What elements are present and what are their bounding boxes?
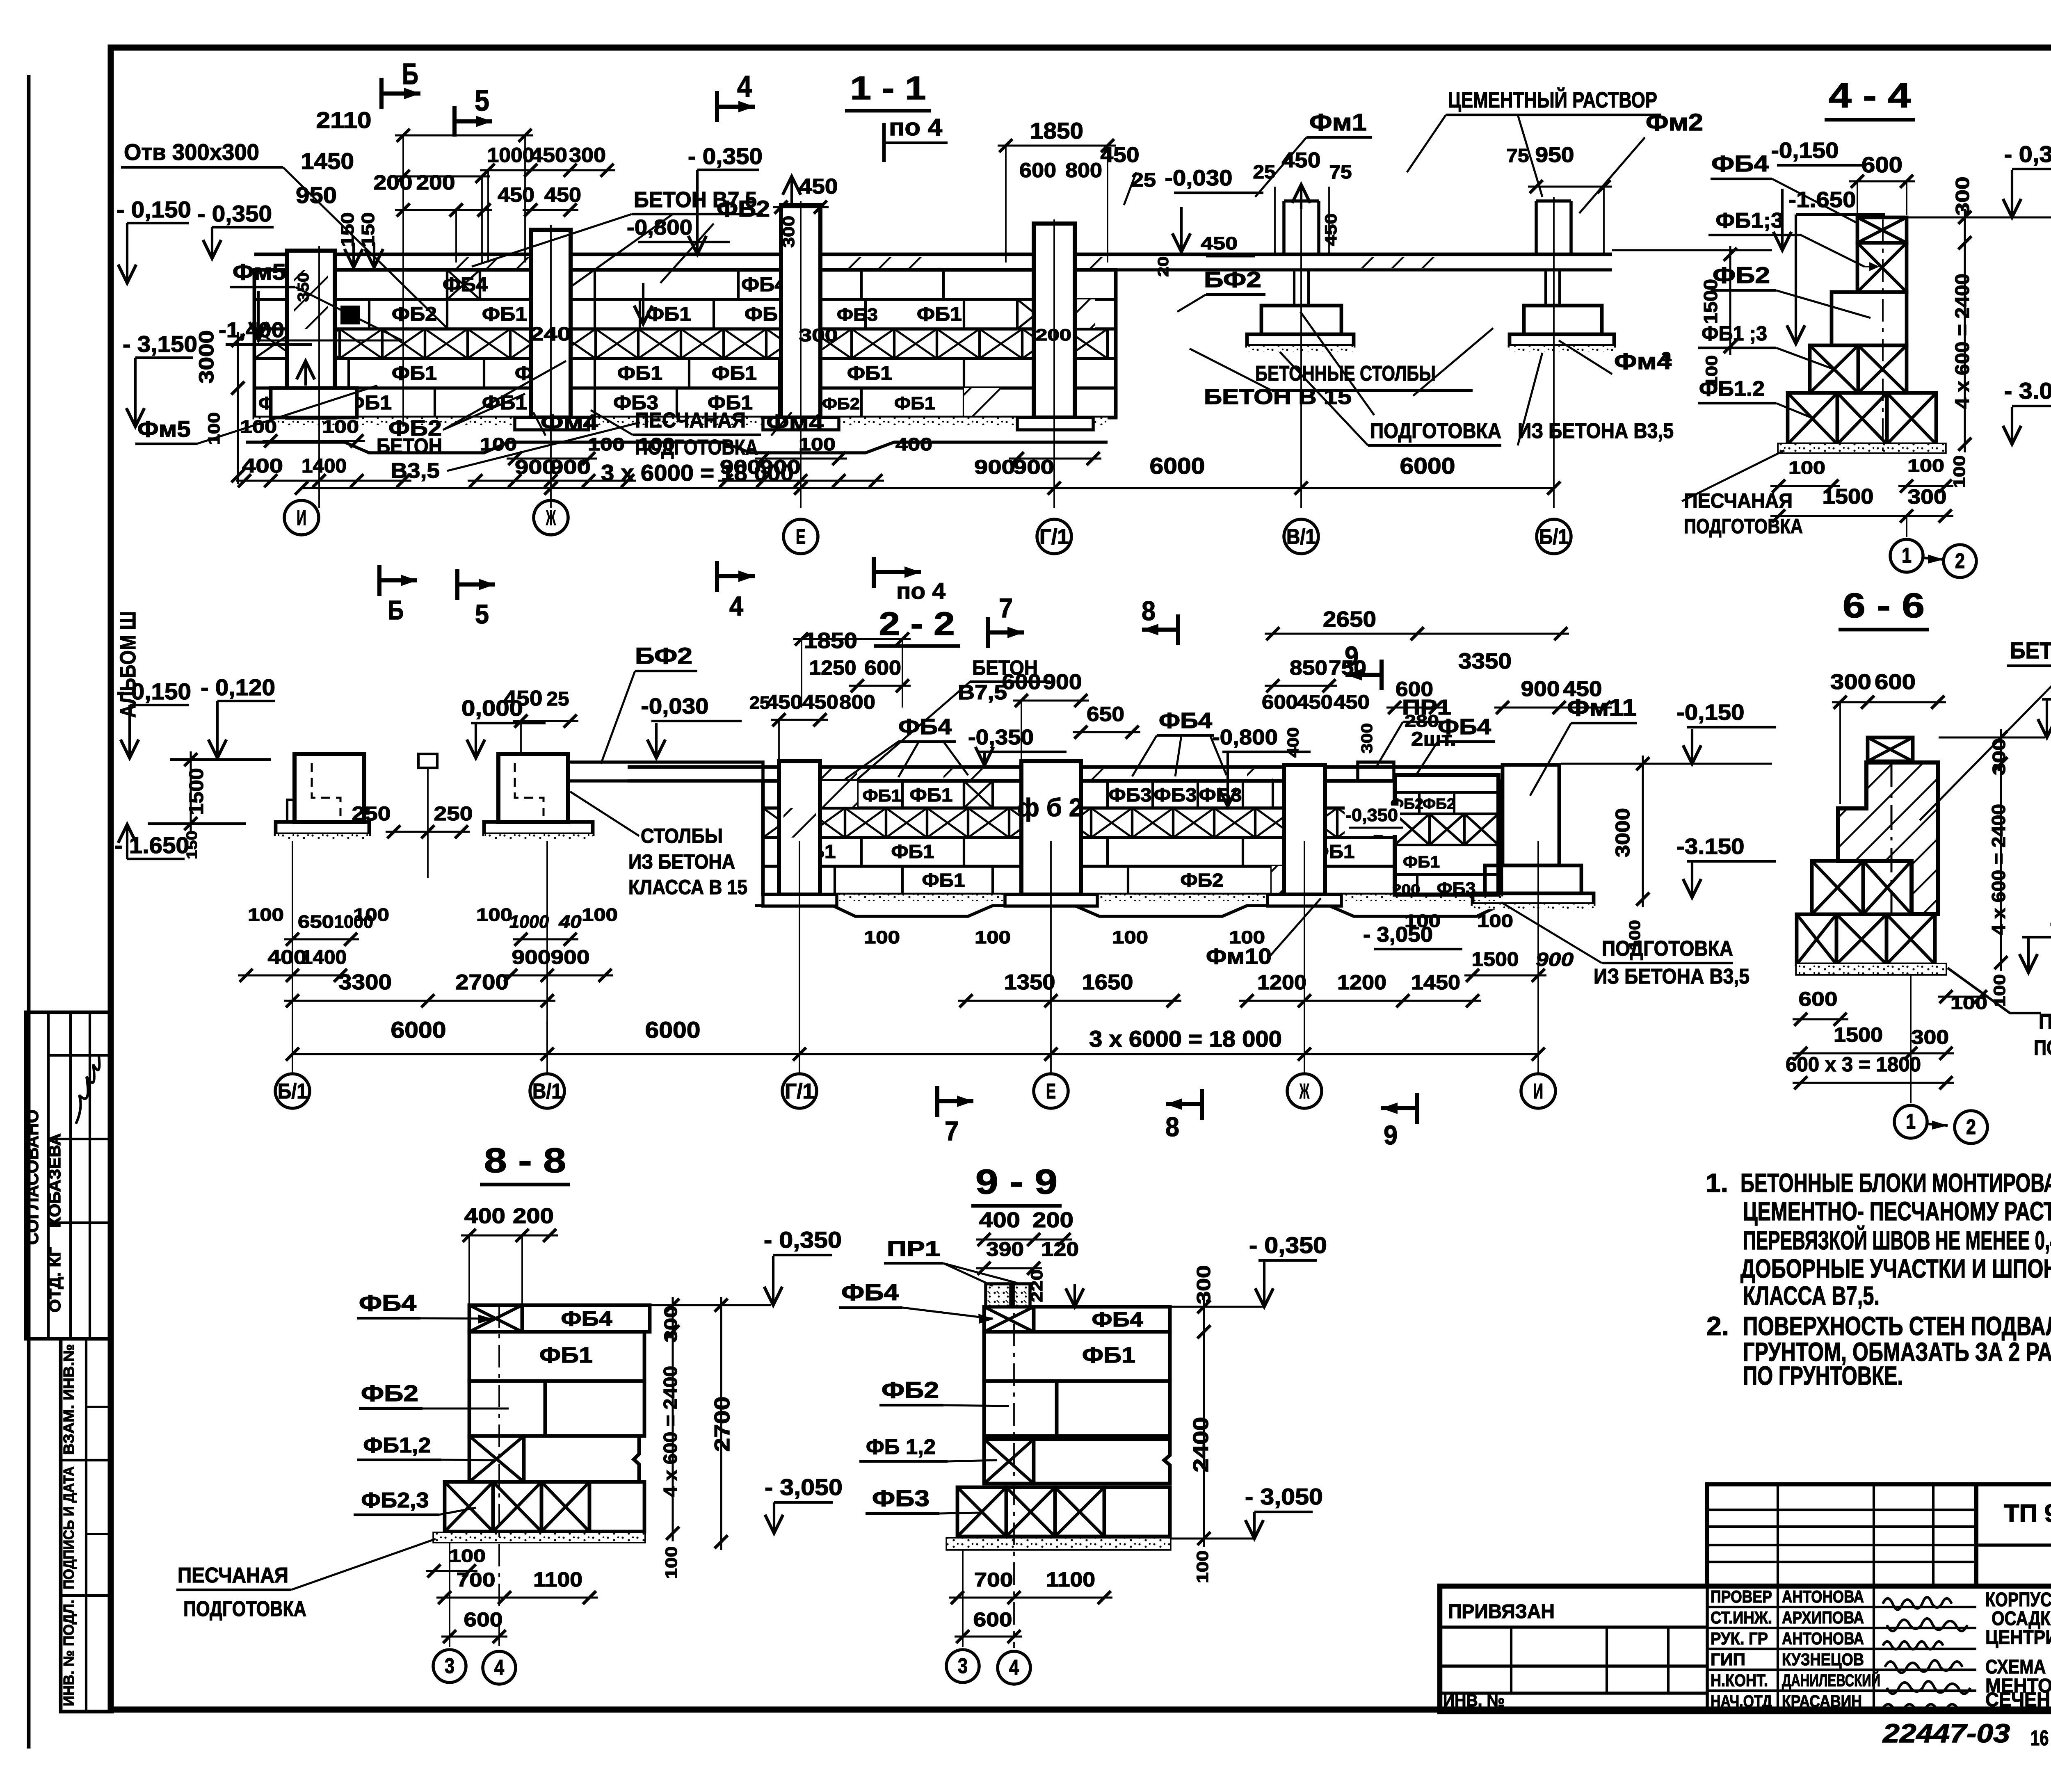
6-6 bottom X row <box>1797 914 1836 964</box>
svg-text:ФБ4: ФБ4 <box>1438 715 1491 739</box>
svg-text:350: 350 <box>295 272 312 302</box>
svg-text:100: 100 <box>449 1546 486 1566</box>
svg-text:2700: 2700 <box>455 970 509 994</box>
axis circle Е <box>783 519 818 554</box>
sheet left edge line <box>27 75 31 1682</box>
dim 1500 rot right <box>1729 246 1731 355</box>
svg-text:100: 100 <box>799 434 836 454</box>
svg-text:ФБ4: ФБ4 <box>898 715 952 739</box>
2-2 small marker 0.000 <box>418 754 437 768</box>
svg-text:1650: 1650 <box>1082 970 1133 994</box>
svg-text:8 - 8: 8 - 8 <box>484 1141 566 1180</box>
svg-text:600: 600 <box>1396 678 1433 701</box>
svg-text:100: 100 <box>1907 456 1944 476</box>
axis dim line 1-1 <box>301 487 1554 489</box>
svg-text:4: 4 <box>1009 1656 1019 1680</box>
svg-text:900: 900 <box>1043 670 1082 694</box>
svg-text:ФБ1: ФБ1 <box>617 363 662 384</box>
svg-text:1000: 1000 <box>487 144 534 167</box>
svg-text:600: 600 <box>1875 670 1916 694</box>
svg-text:Б: Б <box>388 595 404 625</box>
svg-text:900: 900 <box>551 947 590 968</box>
9-9 lintels ПР1 <box>986 1284 1011 1307</box>
svg-text:- 0,350: - 0,350 <box>2004 141 2051 167</box>
svg-text:120: 120 <box>1041 1239 1079 1260</box>
pier И footing <box>271 388 357 418</box>
svg-text:6000: 6000 <box>391 1017 446 1043</box>
6-6 axis circles <box>1894 1105 1927 1138</box>
4-4 sand strip <box>1779 444 1945 452</box>
svg-text:3: 3 <box>445 1654 455 1678</box>
svg-text:900: 900 <box>512 947 551 968</box>
svg-text:100: 100 <box>588 434 625 454</box>
2-2 БФ2 slab piece <box>568 762 763 781</box>
axis circle В1 (2-2) <box>530 1074 564 1108</box>
title block ПРИВЯЗАН table <box>1440 1625 1707 1629</box>
svg-text:ИНВ. № ПОДЛ.: ИНВ. № ПОДЛ. <box>60 1600 77 1706</box>
column Фм1 at В1 <box>1282 201 1286 254</box>
pier Ж footing <box>515 418 589 430</box>
svg-text:1500: 1500 <box>1472 949 1519 970</box>
svg-text:ПОДГОТОВКА: ПОДГОТОВКА <box>635 436 758 459</box>
svg-text:БЕТОННЫЕ БЛОКИ МОНТИРОВАТЬ: БЕТОННЫЕ БЛОКИ МОНТИРОВАТЬ ПО СВЕЖЕУЛОЖЕ… <box>1740 1168 2051 1198</box>
svg-text:ФБ1: ФБ1 <box>917 304 962 325</box>
row3 X-hatch row <box>254 329 297 358</box>
dim 1000 450 300 (above Ж) <box>480 169 615 171</box>
9-9 sand strip <box>947 1539 1170 1549</box>
svg-text:ЦЕНТРИФУГАМИ ОГШ 1001 К-01: ЦЕНТРИФУГАМИ ОГШ 1001 К-01 <box>1985 1627 2051 1648</box>
svg-text:300: 300 <box>799 325 838 345</box>
svg-text:Фм10: Фм10 <box>1206 944 1272 969</box>
svg-text:100: 100 <box>476 905 512 925</box>
band footing line <box>254 416 1116 420</box>
2-2 section marks bottom <box>935 1086 939 1117</box>
svg-text:1100: 1100 <box>533 1568 582 1591</box>
axis circle И (2-2) <box>1521 1074 1555 1108</box>
title block staff rows <box>1707 1606 1976 1608</box>
svg-text:3 x 6000 = 18 000: 3 x 6000 = 18 000 <box>1089 1026 1282 1052</box>
svg-text:200: 200 <box>416 171 455 194</box>
svg-text:1850: 1850 <box>1030 118 1083 144</box>
svg-text:АНТОНОВА: АНТОНОВА <box>1782 1629 1864 1648</box>
svg-text:100: 100 <box>582 905 618 925</box>
pier Г1 footing <box>1017 418 1093 430</box>
svg-text:И: И <box>297 506 306 530</box>
svg-text:450: 450 <box>766 692 802 713</box>
svg-text:ФБ3: ФБ3 <box>1154 784 1197 806</box>
svg-text:600: 600 <box>464 1609 503 1631</box>
svg-text:1 - 1: 1 - 1 <box>850 70 926 106</box>
9-9 row ФБ1,2 <box>984 1439 1034 1484</box>
svg-text:В/1: В/1 <box>532 1080 562 1103</box>
svg-text:- 0,350: - 0,350 <box>197 201 272 226</box>
axis circle Ж (2-2) <box>1287 1074 1322 1108</box>
svg-text:ПЕСЧАНАЯ: ПЕСЧАНАЯ <box>178 1564 288 1587</box>
svg-text:БФ2: БФ2 <box>635 643 692 669</box>
svg-text:7: 7 <box>945 1116 959 1146</box>
svg-text:6000: 6000 <box>1400 453 1455 479</box>
svg-text:-0,350: -0,350 <box>968 726 1034 749</box>
4-4 block ФБ2 <box>1832 292 1907 345</box>
svg-text:КЛАССА В 15: КЛАССА В 15 <box>628 876 747 899</box>
svg-text:ФБ3: ФБ3 <box>1109 784 1152 806</box>
svg-text:И: И <box>1533 1080 1543 1103</box>
8-8 sand strip <box>434 1533 644 1542</box>
svg-text:1200: 1200 <box>1337 971 1386 994</box>
svg-text:В/1: В/1 <box>1286 525 1316 549</box>
svg-text:ФБ1: ФБ1 <box>894 393 935 413</box>
svg-text:Б/1: Б/1 <box>278 1080 307 1103</box>
svg-text:ИЗ БЕТОНА В3,5: ИЗ БЕТОНА В3,5 <box>1518 419 1674 443</box>
svg-text:4: 4 <box>737 70 752 103</box>
svg-text:1400: 1400 <box>301 947 347 968</box>
svg-text:600: 600 <box>1799 988 1838 1010</box>
svg-text:ФБ1: ФБ1 <box>712 363 757 384</box>
svg-text:ВЗАМ. ИНВ.№: ВЗАМ. ИНВ.№ <box>60 1344 77 1455</box>
svg-text:3000: 3000 <box>195 330 218 384</box>
section 1-1 wall band outline <box>254 270 1116 418</box>
2-2 end wall И <box>1395 775 1498 895</box>
9-9 axis circles <box>946 1650 979 1682</box>
dim 3350 <box>1409 633 1569 635</box>
svg-text:300: 300 <box>661 1306 681 1342</box>
svg-text:8: 8 <box>1165 1112 1179 1142</box>
svg-text:3350: 3350 <box>1458 649 1512 673</box>
svg-text:6000: 6000 <box>645 1017 701 1043</box>
opening Отв 300x300 <box>340 306 360 324</box>
svg-text:1.: 1. <box>1706 1168 1728 1198</box>
svg-text:5: 5 <box>475 84 489 117</box>
9-9 row ФБ4 <box>984 1307 1034 1332</box>
svg-text:280: 280 <box>1405 711 1439 730</box>
svg-text:100: 100 <box>1951 455 1969 488</box>
svg-text:ФБ2: ФБ2 <box>882 1377 939 1403</box>
svg-text:-0,150: -0,150 <box>1677 700 1745 725</box>
svg-text:ПОДГОТОВКА: ПОДГОТОВКА <box>1370 419 1501 443</box>
svg-text:Ж: Ж <box>1299 1080 1309 1103</box>
svg-text:16 КОПИРОВАЛ: ХЮППЕНЕН: 16 КОПИРОВАЛ: ХЮППЕНЕН <box>2030 1726 2051 1750</box>
svg-text:ПОДГОТОВКА: ПОДГОТОВКА <box>2034 1036 2051 1060</box>
svg-text:ФБ2: ФБ2 <box>361 1380 418 1406</box>
svg-text:АНТОНОВА: АНТОНОВА <box>1782 1587 1864 1606</box>
svg-text:ФБ3: ФБ3 <box>872 1485 930 1511</box>
8-8 center lines <box>498 1305 500 1648</box>
svg-text:2110: 2110 <box>316 107 372 133</box>
svg-text:ИНВ. №: ИНВ. № <box>1443 1691 1505 1710</box>
svg-text:600: 600 <box>1262 692 1298 713</box>
svg-text:200: 200 <box>1035 326 1071 344</box>
svg-text:ФБ1: ФБ1 <box>863 786 902 805</box>
column Фм2 at Б1 <box>1535 201 1538 254</box>
6-6 big hatched wall <box>1838 762 1938 914</box>
svg-text:ФБ3: ФБ3 <box>1437 879 1476 898</box>
svg-text:- 3.050: - 3.050 <box>2004 378 2051 404</box>
svg-text:100: 100 <box>322 417 359 437</box>
dim 2650 <box>1265 633 1425 635</box>
svg-text:9: 9 <box>1345 641 1359 671</box>
4-4 block ФБ4 top X <box>1857 217 1907 243</box>
svg-text:ФБ 1,2: ФБ 1,2 <box>866 1435 936 1459</box>
2-2 section marks top <box>986 617 990 648</box>
svg-text:ФБ2: ФБ2 <box>392 304 437 325</box>
svg-text:20: 20 <box>1155 256 1172 277</box>
svg-text:450: 450 <box>504 687 543 710</box>
svg-text:6 - 6: 6 - 6 <box>1843 586 1925 625</box>
svg-text:100: 100 <box>248 905 284 925</box>
dim 2110 <box>395 135 533 137</box>
2-2 isolated pier В1 <box>498 754 568 822</box>
svg-text:22447-03: 22447-03 <box>1882 1719 2010 1748</box>
sand strip under band <box>246 442 1108 453</box>
svg-text:ИЗ БЕТОНА: ИЗ БЕТОНА <box>628 850 735 873</box>
svg-text:1450: 1450 <box>301 148 354 174</box>
2-2 pier Г1 <box>779 761 820 895</box>
axis circle Ж <box>534 500 568 535</box>
svg-text:а: а <box>1661 347 1672 365</box>
axis line Б1 <box>1553 197 1555 508</box>
svg-text:БФ2: БФ2 <box>1204 267 1261 292</box>
svg-text:900: 900 <box>1521 677 1560 701</box>
svg-text:ФБ1: ФБ1 <box>847 363 892 384</box>
svg-text:-0,800: -0,800 <box>627 216 692 240</box>
axis circle Б1 (2-2) <box>275 1074 310 1108</box>
svg-text:400: 400 <box>1285 727 1302 758</box>
title block ТП cell <box>1976 1484 2051 1586</box>
dim 3000 rot (2-2) <box>1642 756 1644 907</box>
svg-text:ФБ4: ФБ4 <box>359 1290 416 1316</box>
svg-text:КОБАЗЕВА: КОБАЗЕВА <box>46 1133 64 1228</box>
svg-text:ФБ4: ФБ4 <box>841 1279 899 1305</box>
svg-text:ФБ2: ФБ2 <box>822 395 860 413</box>
svg-text:Ж: Ж <box>546 506 556 530</box>
8-8 row ФБ2 <box>469 1381 545 1436</box>
svg-text:100: 100 <box>1477 911 1513 931</box>
svg-text:АРХИПОВА: АРХИПОВА <box>1782 1608 1864 1627</box>
section marks top 1-1 <box>379 78 384 109</box>
svg-text:450: 450 <box>1282 148 1321 172</box>
2-2 row1 blocks <box>856 781 859 808</box>
svg-text:ПР1: ПР1 <box>887 1237 940 1261</box>
svg-text:4: 4 <box>494 1656 504 1680</box>
6-6 center line <box>1910 974 1912 1103</box>
svg-text:В7,5: В7,5 <box>958 681 1007 704</box>
svg-text:1000: 1000 <box>509 912 549 932</box>
svg-text:ФБ2: ФБ2 <box>717 196 770 221</box>
svg-text:1450: 1450 <box>1411 971 1460 994</box>
svg-text:2.: 2. <box>1706 1311 1729 1341</box>
row2 blocks <box>368 299 370 329</box>
svg-text:600 х 3 = 1800: 600 х 3 = 1800 <box>1786 1053 1921 1076</box>
svg-text:Б: Б <box>402 58 418 91</box>
svg-text:950: 950 <box>1535 143 1574 167</box>
svg-text:6000: 6000 <box>1150 453 1205 479</box>
axis circle И <box>284 500 319 535</box>
svg-text:4 х 600 = 2400: 4 х 600 = 2400 <box>1952 274 1973 409</box>
pier Е footing <box>763 418 839 430</box>
svg-text:ПЕРЕВЯЗКОЙ ШВОВ НЕ МЕНЕЕ: ПЕРЕВЯЗКОЙ ШВОВ НЕ МЕНЕЕ 0,4h БЛОКА. <box>1743 1225 2051 1255</box>
slab hatch patches <box>447 257 531 268</box>
svg-text:-0,350: -0,350 <box>1345 805 1398 825</box>
svg-text:ФБ2: ФБ2 <box>1423 795 1455 812</box>
svg-text:ФБ4: ФБ4 <box>443 274 488 296</box>
svg-text:ФБ3: ФБ3 <box>837 305 878 325</box>
svg-text:ГИП: ГИП <box>1711 1650 1745 1669</box>
2-2 axis lines <box>292 841 293 1074</box>
svg-text:200: 200 <box>1032 1208 1073 1232</box>
dim 1450 <box>395 176 490 178</box>
2-2 slab hatch patches <box>819 769 857 779</box>
svg-text:2: 2 <box>1966 1115 1976 1139</box>
pier Ж <box>531 230 571 418</box>
dim 1500 rot (2-2) <box>190 751 192 832</box>
svg-text:450: 450 <box>530 144 567 167</box>
axis circle В1 <box>1284 519 1318 554</box>
svg-text:БЕТОН: БЕТОН <box>377 434 442 458</box>
svg-text:ф б 2: ф б 2 <box>1017 794 1083 822</box>
dim 3000 vertical <box>237 332 239 484</box>
svg-text:КУЗНЕЦОВ: КУЗНЕЦОВ <box>1782 1650 1864 1669</box>
svg-text:7: 7 <box>999 593 1013 623</box>
svg-text:Е: Е <box>796 525 806 549</box>
svg-text:600: 600 <box>1019 159 1056 182</box>
axis line В1 <box>1300 197 1302 508</box>
6-6 dim 300 rot <box>2000 729 2002 772</box>
section 1-1 floor slab <box>254 253 1612 256</box>
svg-text:1850: 1850 <box>804 628 857 653</box>
svg-text:2700: 2700 <box>710 1397 734 1452</box>
svg-text:ФБ1: ФБ1 <box>482 304 527 325</box>
2-2 band outline <box>763 781 1501 895</box>
axis line Ж <box>550 225 552 508</box>
6-6 dim 4x600 rot <box>2000 756 2002 971</box>
4-4 dim 4x600 rot <box>1964 235 1966 452</box>
svg-text:Фм1: Фм1 <box>1309 109 1367 136</box>
svg-text:40: 40 <box>558 912 582 932</box>
svg-text:900: 900 <box>720 457 761 478</box>
svg-text:-1.650: -1.650 <box>1788 187 1856 212</box>
2-2 isolated pier Б1 <box>295 754 364 822</box>
svg-text:ФБ1;3: ФБ1;3 <box>1716 209 1784 233</box>
svg-text:ДАНИЛЕВСКИЙ: ДАНИЛЕВСКИЙ <box>1782 1670 1880 1690</box>
svg-text:Фм5: Фм5 <box>233 259 286 285</box>
svg-text:ФБ1: ФБ1 <box>539 1343 593 1367</box>
svg-text:4 х 600 = 2400: 4 х 600 = 2400 <box>1988 804 2009 935</box>
svg-text:- 0,150: - 0,150 <box>116 196 191 222</box>
8-8 dim 300 rot <box>672 1297 674 1340</box>
svg-text:ФБ1: ФБ1 <box>1403 853 1440 871</box>
svg-text:1: 1 <box>1902 544 1912 568</box>
9-9 row ФБ3 <box>957 1487 1006 1536</box>
svg-text:ФБ4: ФБ4 <box>1092 1308 1143 1331</box>
2-2 sand line <box>755 906 1499 916</box>
svg-text:1100: 1100 <box>1046 1568 1095 1591</box>
svg-text:СОГЛАСОВАНО: СОГЛАСОВАНО <box>22 1109 42 1245</box>
svg-text:ДОБОРНЫЕ УЧАСТКИ И ШПОНКИ: ДОБОРНЫЕ УЧАСТКИ И ШПОНКИ ЗАДЕЛАТЬ БЕТОН… <box>1740 1254 2051 1283</box>
svg-text:1: 1 <box>1906 1110 1916 1134</box>
svg-text:800: 800 <box>839 692 875 713</box>
2-2 row4 blocks <box>834 866 836 895</box>
8-8 dim 4x600 rot <box>672 1324 674 1541</box>
9-9 center lines <box>1013 1284 1015 1648</box>
svg-text:- 3,050: - 3,050 <box>765 1474 843 1500</box>
svg-text:по 4: по 4 <box>889 114 942 141</box>
section marks bottom 1-1 <box>377 565 381 596</box>
2-2 row1 right X <box>1403 781 1436 808</box>
8-8 row ФБ2,3 <box>445 1482 493 1532</box>
svg-text:- 0,150: - 0,150 <box>116 678 191 704</box>
row1 X block <box>447 270 480 299</box>
svg-text:300: 300 <box>1908 485 1947 508</box>
svg-text:-0,030: -0,030 <box>1165 166 1233 190</box>
2-2 row3 blocks <box>860 838 863 866</box>
axis circle Е (2-2) <box>1034 1074 1068 1108</box>
svg-text:- 0,350: - 0,350 <box>688 143 763 169</box>
pier Е <box>781 205 820 418</box>
row4 blocks ФБ1 <box>347 358 350 388</box>
4-4 block ФБ1;3 X <box>1857 243 1907 292</box>
svg-text:300: 300 <box>1830 670 1871 694</box>
svg-text:390: 390 <box>986 1239 1024 1260</box>
svg-text:СТОЛБЫ: СТОЛБЫ <box>641 824 723 847</box>
svg-text:400: 400 <box>895 434 932 454</box>
svg-text:ТП 902-5-47.87: ТП 902-5-47.87 <box>2004 1500 2051 1527</box>
8-8 dim 2700 rot <box>720 1297 722 1550</box>
svg-text:-0,150: -0,150 <box>1771 138 1839 163</box>
axis line Е <box>800 201 802 508</box>
svg-text:- 0,350: - 0,350 <box>1249 1232 1327 1258</box>
4-4 center dash line <box>1882 219 1884 451</box>
title block small upper table <box>1707 1484 1976 1586</box>
svg-text:8: 8 <box>1142 596 1156 626</box>
svg-text:300: 300 <box>1359 723 1376 753</box>
svg-text:9 - 9: 9 - 9 <box>975 1162 1057 1201</box>
svg-text:2650: 2650 <box>1323 607 1376 632</box>
svg-text:100: 100 <box>1112 927 1148 947</box>
svg-text:ПРИВЯЗАН: ПРИВЯЗАН <box>1448 1601 1555 1623</box>
svg-text:ПО ГРУНТОВКЕ.: ПО ГРУНТОВКЕ. <box>1743 1361 1903 1390</box>
2-2 column Фм11 <box>1503 765 1559 865</box>
svg-text:220: 220 <box>1028 1269 1046 1302</box>
svg-text:- 3,150: - 3,150 <box>123 331 197 357</box>
svg-text:3000: 3000 <box>1612 808 1634 857</box>
svg-text:ИЗ БЕТОНА В3,5: ИЗ БЕТОНА В3,5 <box>1594 965 1750 988</box>
svg-text:ОТД. КГ: ОТД. КГ <box>47 1247 64 1313</box>
svg-text:ПОДПИСЬ И ДАТА: ПОДПИСЬ И ДАТА <box>60 1466 77 1589</box>
svg-text:700: 700 <box>457 1569 496 1591</box>
2-2 end wall level -0.350 <box>1345 806 1400 835</box>
svg-text:100: 100 <box>975 927 1011 947</box>
svg-text:ФБ4: ФБ4 <box>1159 708 1212 733</box>
svg-text:3: 3 <box>958 1654 968 1678</box>
svg-text:2400: 2400 <box>1189 1417 1213 1472</box>
svg-text:450: 450 <box>1201 233 1238 253</box>
svg-text:Фм2: Фм2 <box>1646 109 1703 136</box>
6-6 top X block <box>1868 737 1913 761</box>
svg-text:ФБ1: ФБ1 <box>922 870 965 891</box>
pier И <box>287 251 335 418</box>
svg-text:300: 300 <box>1952 177 1973 216</box>
4-4 dim 600 top <box>1849 180 1915 183</box>
svg-text:ФБ2,3: ФБ2,3 <box>361 1488 429 1512</box>
svg-text:900: 900 <box>1536 949 1574 970</box>
row2 X block near Г1 <box>1017 299 1054 329</box>
svg-text:450: 450 <box>802 692 838 713</box>
svg-text:200: 200 <box>1392 882 1420 897</box>
9-9 dim 2400 rot <box>1203 1324 1205 1547</box>
axis circle Г1 <box>1037 519 1071 554</box>
svg-text:ФБ2: ФБ2 <box>1181 870 1224 891</box>
2-2 X row <box>763 808 804 838</box>
